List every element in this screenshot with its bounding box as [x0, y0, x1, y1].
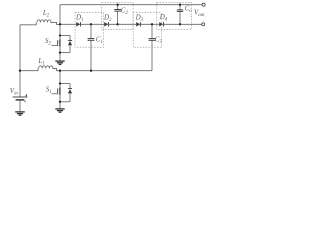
svg-text:D1: D1 [75, 13, 83, 23]
capacitor Co [177, 5, 183, 25]
junction S1 drain [59, 70, 61, 72]
terminal Vout minus [202, 23, 205, 26]
svg-text:L1: L1 [37, 57, 44, 66]
junction S1 source stub [59, 101, 61, 103]
wire rail segment node A to D1 [60, 23, 76, 25]
svg-text:S2: S2 [45, 37, 52, 47]
wire left input vertical [19, 25, 21, 97]
svg-text:Vin: Vin [10, 87, 19, 97]
diode D1 [76, 22, 80, 26]
capacitor C1 [88, 24, 95, 70]
junction S2 source stub [59, 51, 61, 53]
capacitor C3 [149, 24, 156, 70]
junction Co bottom [179, 23, 181, 25]
svg-text:C1: C1 [96, 36, 103, 46]
diode D3 [136, 22, 140, 26]
transistor S2 [52, 24, 73, 52]
svg-text:D4: D4 [159, 13, 168, 23]
junction C3 top [151, 23, 153, 25]
junction node A [59, 23, 61, 25]
junction C2 bottom [116, 23, 118, 25]
wire phase1 horizontal [20, 68, 38, 70]
ground below S1 [55, 102, 64, 112]
junction Co top [179, 4, 181, 6]
ground below S2 [55, 53, 64, 65]
wire rail segment D4 to output [164, 23, 202, 25]
source Vin battery [13, 94, 28, 112]
svg-text:C2: C2 [121, 7, 129, 17]
dashed cell box 4 [157, 2, 192, 29]
junction C2 top [116, 4, 118, 6]
capacitor C2 [114, 5, 121, 25]
inductor L1 [39, 66, 152, 71]
wire rail segment D2 to D3 [109, 23, 137, 25]
diode D4 [159, 22, 163, 26]
svg-text:D3: D3 [135, 13, 144, 23]
svg-text:Vout: Vout [194, 8, 205, 18]
wire rail segment D3 to D4 [141, 23, 160, 25]
svg-text:Co: Co [185, 5, 193, 15]
terminal Vout plus [202, 3, 205, 6]
junction S1 drain stub [59, 82, 61, 84]
inductor L2 [37, 20, 60, 25]
junction L1 node [19, 70, 21, 72]
junction C1 bottom [90, 70, 92, 72]
ground below Vin [15, 112, 25, 115]
svg-text:L2: L2 [42, 9, 50, 19]
junction S2 drain stub [59, 34, 61, 36]
dashed cell box 3 [133, 13, 161, 48]
dashed cell box 2 [102, 2, 133, 29]
dashed cell box 1 [75, 13, 104, 48]
wire rail segment D1 to D2 [81, 23, 105, 25]
wire input top horizontal [20, 22, 36, 24]
junction C1 top [90, 23, 92, 25]
diode D2 [104, 22, 108, 26]
transistor S1 [52, 71, 73, 102]
svg-text:D2: D2 [103, 13, 112, 23]
wire node A vertical [59, 5, 61, 25]
svg-text:S1: S1 [46, 85, 52, 95]
wire top rail [60, 4, 202, 6]
